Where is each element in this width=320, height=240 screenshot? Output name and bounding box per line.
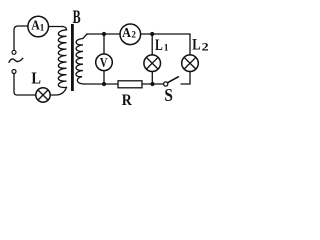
switch S	[164, 77, 179, 86]
resistor R	[118, 81, 142, 88]
svg-text:S: S	[164, 85, 173, 105]
svg-text:B: B	[73, 8, 81, 28]
node junction top of lamp L1	[150, 32, 154, 36]
wire primary coil bottom to lamp L	[50, 87, 66, 95]
wire secondary top rail	[87, 33, 120, 35]
svg-text:L: L	[192, 36, 200, 53]
svg-text:V: V	[100, 56, 108, 71]
svg-text:1: 1	[40, 24, 45, 34]
node junction top of voltmeter	[102, 32, 106, 36]
node junction bottom of lamp L1	[150, 82, 154, 86]
svg-text:2: 2	[202, 42, 209, 54]
lamp L	[36, 88, 50, 102]
wire lamp L2 lower lead to switch contact	[181, 72, 190, 85]
wire voltmeter lower lead	[103, 71, 105, 84]
AC source lower terminal	[12, 70, 16, 74]
AC source tilde	[9, 58, 23, 62]
svg-text:1: 1	[164, 44, 169, 54]
wire resistor to switch	[142, 83, 163, 85]
transformer primary coil	[58, 27, 66, 88]
wire A2 to top-right corner and down to lamp L2	[141, 34, 190, 55]
svg-text:L: L	[155, 37, 163, 54]
transformer secondary coil	[76, 34, 87, 84]
wire top-left corner to ammeter A1	[14, 26, 28, 50]
svg-text:L: L	[31, 68, 41, 87]
transformer core	[71, 24, 74, 91]
ammeter A1	[28, 16, 49, 37]
wire secondary bottom rail to resistor	[84, 83, 119, 85]
AC source upper terminal	[12, 50, 16, 54]
svg-text:2: 2	[131, 31, 136, 41]
lamp L1	[144, 55, 161, 72]
lamp L2	[182, 55, 199, 72]
ammeter A2	[120, 24, 141, 45]
wire lamp L1 lower lead	[151, 72, 153, 85]
svg-text:A: A	[122, 26, 132, 41]
svg-text:R: R	[122, 92, 132, 109]
wire A1 to primary coil	[49, 26, 63, 28]
wire lamp L1 upper lead	[151, 34, 153, 55]
node junction bottom of voltmeter	[102, 82, 106, 86]
wire voltmeter upper lead	[103, 34, 105, 54]
wire lower terminal to bottom rail and lamp L	[14, 74, 36, 95]
voltmeter V	[96, 54, 113, 71]
